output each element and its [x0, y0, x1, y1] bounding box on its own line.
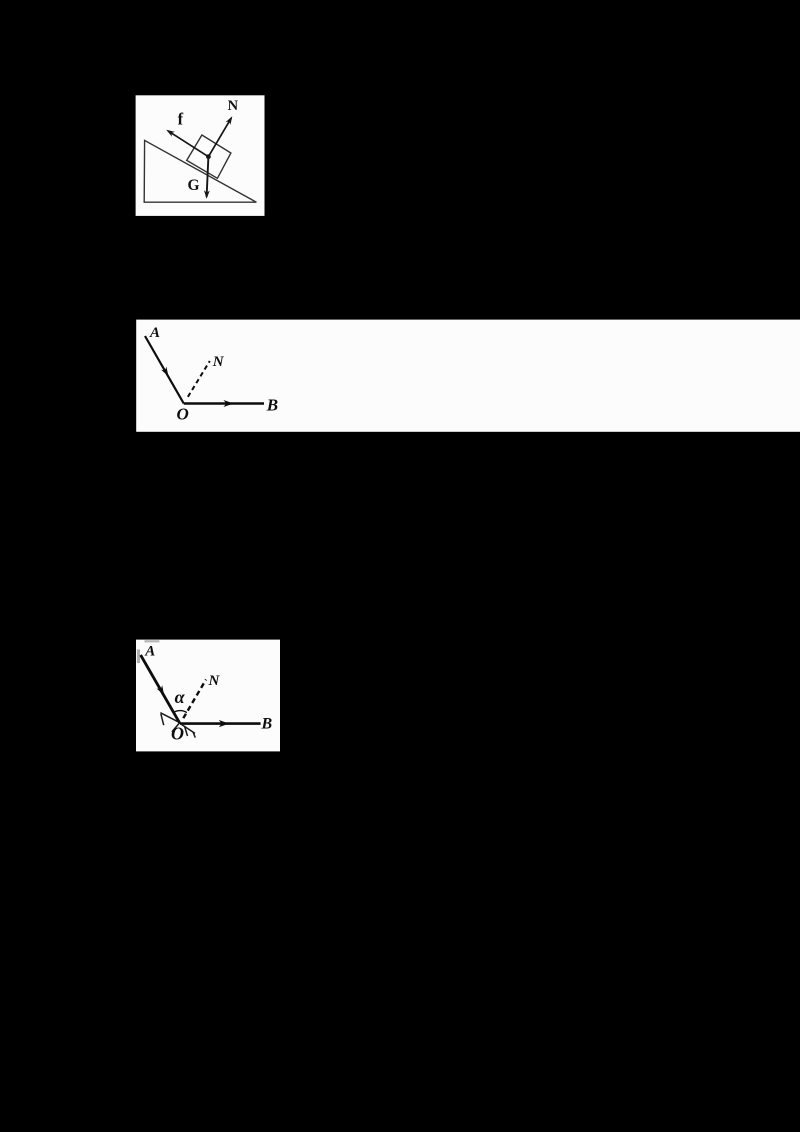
- svg-text:N: N: [208, 673, 221, 689]
- svg-text:α: α: [175, 687, 186, 707]
- block on incline: [187, 135, 231, 178]
- svg-text:f: f: [178, 110, 184, 129]
- arrowhead on OA toward O (panel 3): [157, 685, 165, 695]
- support hatch: lower-right wall stroke: [181, 724, 195, 733]
- svg-text:O: O: [171, 724, 184, 744]
- support hatch: middle stroke: [185, 726, 188, 736]
- incline triangle: [144, 140, 256, 202]
- force G (gravity) arrow: [204, 157, 210, 199]
- dashed ray ON (panel 3): [183, 680, 206, 719]
- svg-text:B: B: [266, 395, 278, 414]
- support hatch: right tick: [193, 732, 195, 738]
- svg-text:N: N: [228, 98, 239, 114]
- ray OA: [145, 336, 184, 404]
- arrowhead on OA toward O: [161, 367, 168, 377]
- support hatch: left tick: [161, 714, 164, 725]
- ray OB (panel 3): [180, 722, 261, 725]
- svg-text:A: A: [149, 325, 160, 341]
- ray OB: [184, 402, 264, 404]
- support hatch: upper-left wall stroke: [160, 713, 179, 723]
- arrowhead on OB: [224, 400, 234, 407]
- svg-text:N: N: [212, 354, 225, 370]
- ray OA (panel 3): [141, 655, 180, 724]
- svg-text:A: A: [144, 643, 155, 659]
- scan smudge left: [137, 649, 140, 663]
- panel 2 white background: [136, 320, 800, 432]
- scan smudge top: [144, 640, 159, 642]
- dashed ray ON: [188, 361, 210, 397]
- svg-text:G: G: [188, 177, 200, 194]
- force N (normal) arrow: [208, 116, 232, 157]
- panel 1 white background: [136, 95, 265, 216]
- arrowhead on OB (panel 3): [219, 720, 229, 727]
- center-of-mass dot: [206, 154, 211, 159]
- svg-text:O: O: [177, 405, 189, 424]
- force f (friction) arrow: [166, 130, 208, 157]
- angle alpha arc: [174, 711, 187, 713]
- panel 3 white background: [136, 640, 280, 752]
- svg-text:B: B: [261, 716, 273, 733]
- support hatch: lower-left stroke: [172, 723, 180, 732]
